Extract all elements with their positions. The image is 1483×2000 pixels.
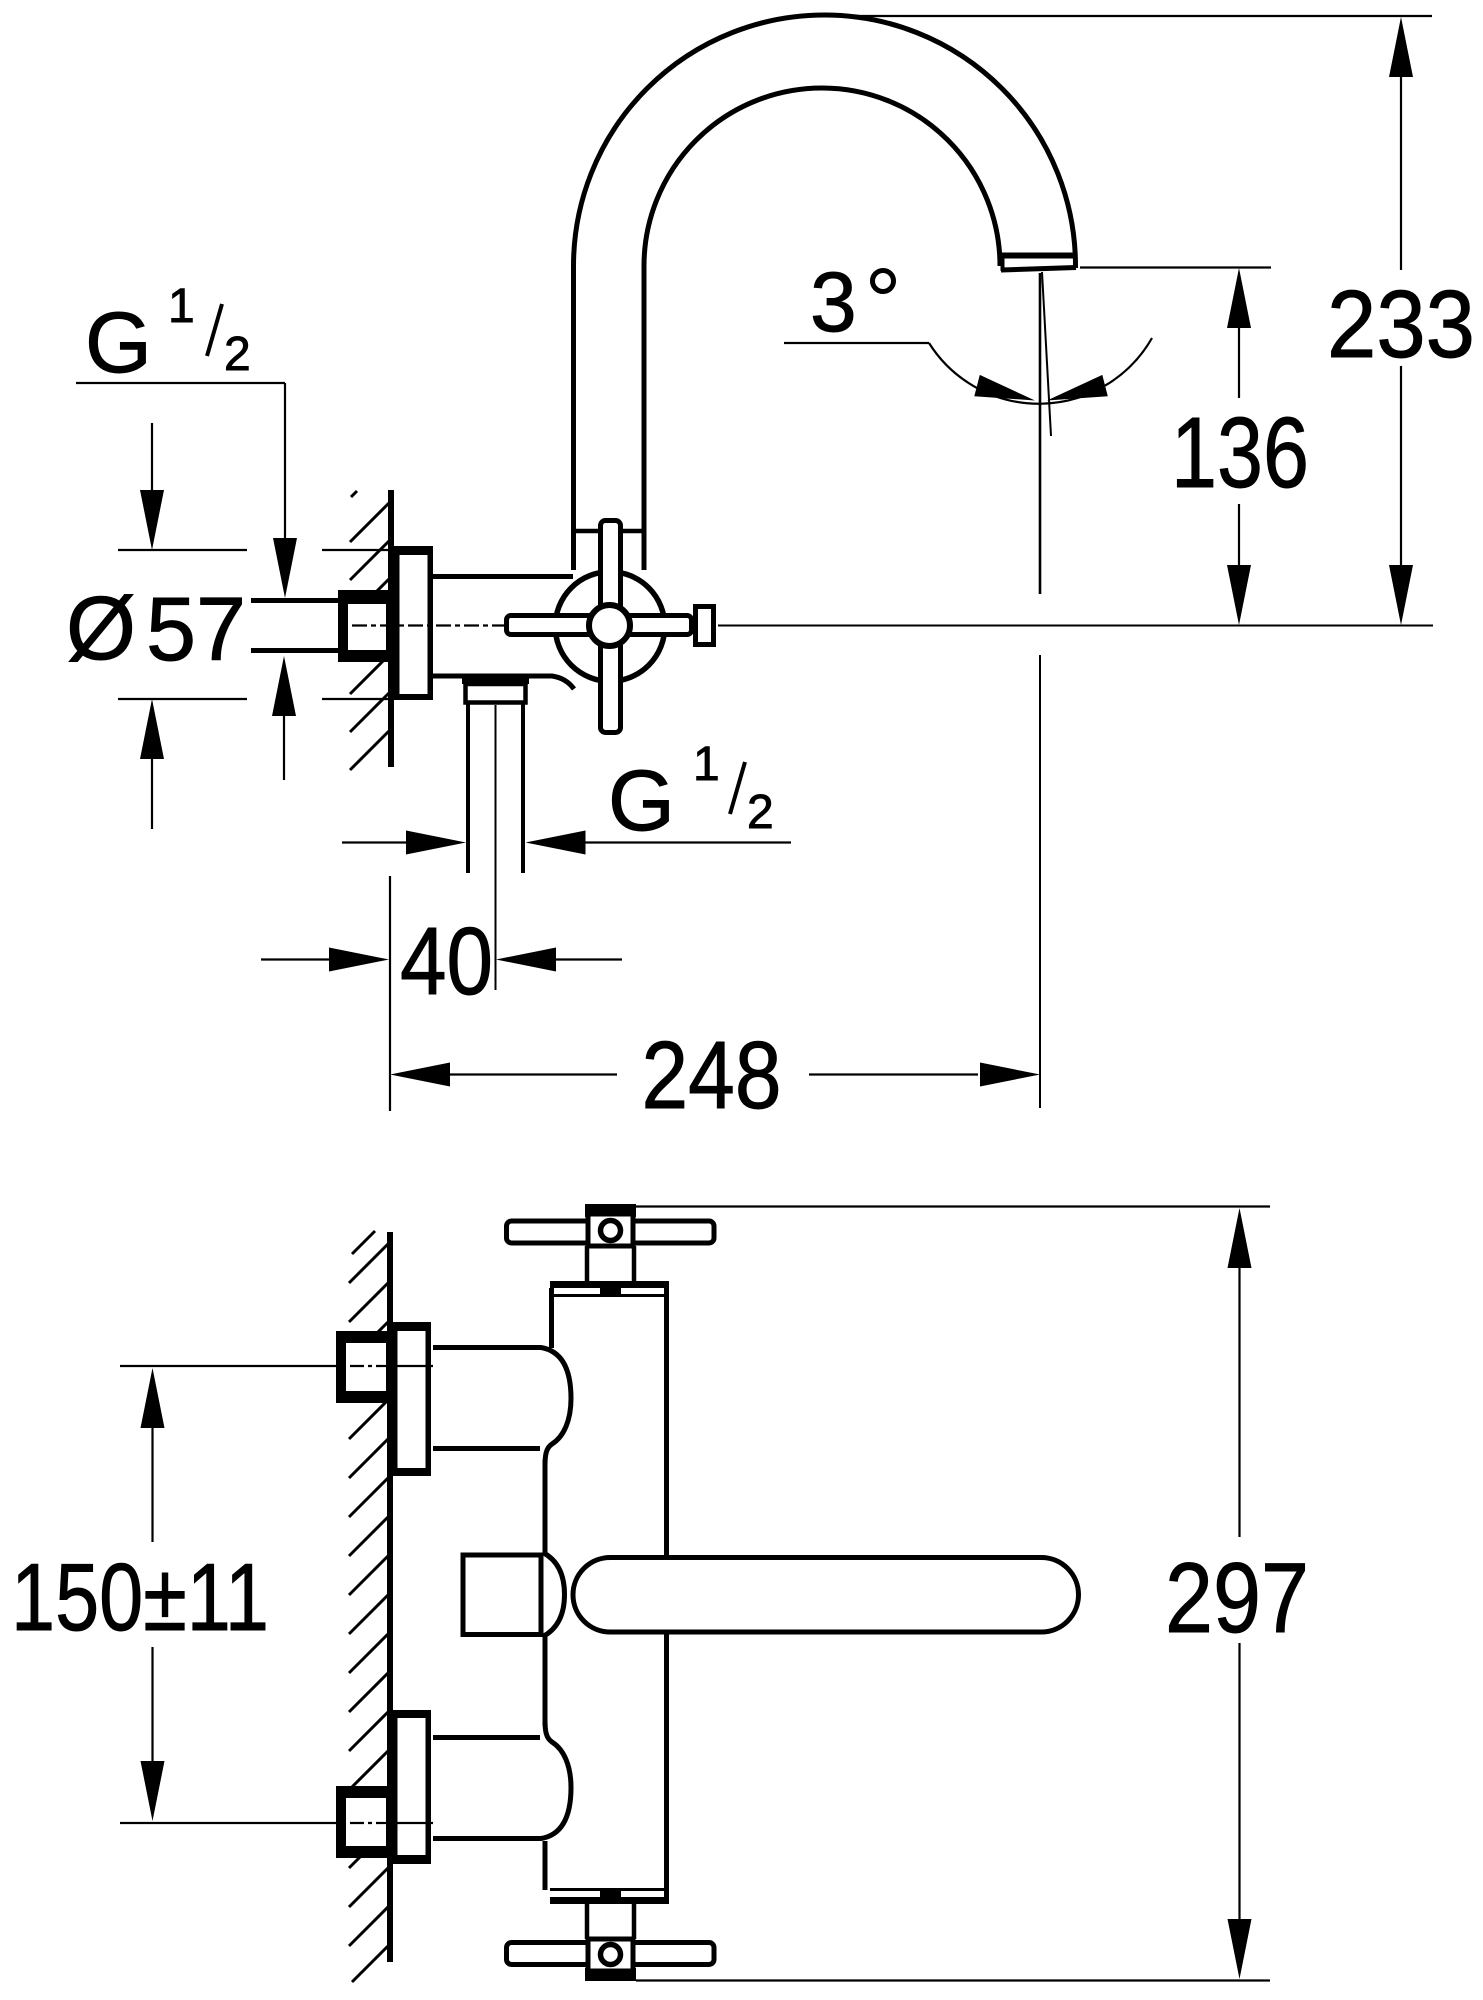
wall hatching — [350, 491, 390, 770]
escutcheon flange — [397, 549, 431, 698]
bottom outlet union nut — [466, 684, 526, 703]
D57 arrow down — [151, 423, 153, 495]
svg-text:2: 2 — [224, 328, 251, 381]
rosette circle — [555, 572, 665, 682]
centerline through escutcheon top — [394, 1365, 433, 1367]
handle bottom: stem — [585, 1904, 590, 1939]
svg-text:248: 248 — [642, 1022, 782, 1129]
svg-text:40: 40 — [400, 908, 493, 1015]
handle top: stem — [585, 1246, 590, 1281]
G1/2 arrow down — [273, 538, 297, 598]
horizontal base line (valve axis) — [718, 625, 1433, 627]
inlet stub G1/2 — [251, 601, 340, 651]
outlet centerline vertical — [1039, 273, 1042, 594]
svg-text:233: 233 — [1327, 271, 1475, 378]
escutcheon top — [395, 1325, 429, 1474]
svg-text:Ø: Ø — [66, 579, 136, 679]
body neck left edge — [543, 1460, 548, 1726]
handle top: cap — [585, 1204, 636, 1217]
handle hub circle — [589, 605, 630, 646]
aerator (tilted 3 deg) — [1001, 268, 1076, 271]
hex nut bottom — [336, 1786, 391, 1858]
dimension 248 — [389, 876, 391, 1111]
cross handle vertical arm — [601, 521, 621, 733]
svg-text:1: 1 — [693, 738, 720, 791]
mouth left edge — [1001, 253, 1005, 271]
body bottom cap — [550, 1897, 669, 1904]
svg-text:1: 1 — [168, 280, 195, 333]
svg-text:G: G — [85, 295, 152, 391]
outlet extension line lower — [1039, 655, 1041, 1108]
dimension 150 +- 11 — [141, 1368, 165, 1428]
dimension 233 — [795, 15, 1432, 17]
G1/2 leader underline — [76, 382, 285, 384]
dimension D57 extension lines — [118, 549, 247, 551]
svg-text:G: G — [608, 753, 675, 849]
handle bottom: bar — [507, 1943, 715, 1965]
outlet union (plan, center) — [461, 1553, 565, 1637]
svg-text:297: 297 — [1165, 1542, 1309, 1653]
riser ledge — [573, 529, 644, 534]
svg-text:57: 57 — [146, 580, 246, 680]
bottom outlet flange — [462, 676, 529, 684]
handle bottom: cap — [585, 1968, 636, 1981]
handle top: screw — [601, 1221, 621, 1241]
svg-text:150±11: 150±11 — [11, 1544, 269, 1651]
water stream line tilted 3 deg — [1042, 272, 1051, 436]
dimension 40 — [261, 958, 330, 960]
pipe centerline — [495, 705, 497, 990]
hex nut — [338, 590, 391, 662]
valve centerline dash-dot — [352, 624, 506, 626]
handle top: hub — [588, 1214, 633, 1246]
wall hatching — [349, 1231, 389, 1982]
escutcheon bottom — [395, 1713, 429, 1862]
150 dim extension bottom — [120, 1822, 336, 1824]
body top cap — [550, 1281, 669, 1288]
svg-text:2: 2 — [747, 786, 774, 839]
body right edge — [664, 1284, 669, 1558]
handle bottom: screw — [601, 1945, 621, 1965]
wall face line — [388, 490, 394, 767]
D57 arrow up — [140, 699, 164, 759]
bottom outlet pipe — [466, 703, 470, 873]
spout tube and arc — [574, 15, 1076, 570]
svg-text:3: 3 — [810, 255, 857, 349]
hex nut top — [336, 1331, 391, 1403]
dimension 297 — [636, 1205, 1270, 1207]
inlet connector top (eccentric union) — [433, 1348, 571, 1467]
body cylinder — [433, 574, 573, 579]
150 dim extension top (inlet axis) — [120, 1365, 336, 1367]
wall face line — [387, 1232, 393, 1962]
handle end block — [696, 607, 714, 645]
handle top: bar — [507, 1221, 715, 1243]
spout mouth face — [1001, 253, 1075, 259]
cross handle horizontal arm — [507, 616, 692, 635]
body left edge upper — [549, 1288, 554, 1348]
handle bottom: hub — [588, 1939, 633, 1971]
G1/2 leader vertical — [284, 383, 286, 540]
inlet connector bottom — [433, 1720, 571, 1839]
G1/2 arrow up — [272, 656, 296, 716]
spout (plan, stadium) — [573, 1558, 1079, 1633]
svg-text:136: 136 — [1171, 397, 1309, 509]
dimension 136 — [1080, 266, 1271, 268]
